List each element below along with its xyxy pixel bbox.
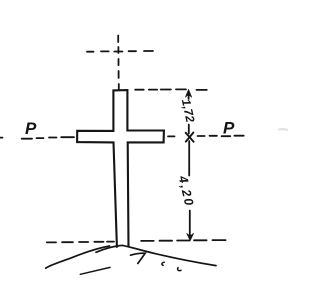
cross-top level dashed line bbox=[135, 88, 207, 91]
svg-text:4,20: 4,20 bbox=[175, 174, 196, 209]
small comma mark on slope bbox=[178, 268, 181, 271]
mound outline left stroke bbox=[46, 246, 110, 268]
svg-text:P: P bbox=[25, 119, 37, 138]
arm-level dashed line right bbox=[168, 135, 244, 138]
hatch stroke on mound face bbox=[80, 267, 110, 274]
dimension line 4,20 vertical segments bbox=[188, 141, 191, 237]
dimension arrowhead up (top of 1,72) bbox=[185, 89, 192, 97]
arm-level dashed line left (line of action of P) bbox=[0, 137, 74, 139]
rock ledge mark (7-shape) right of post bbox=[131, 253, 146, 263]
mound summit/right slope stroke bbox=[96, 245, 216, 265]
small c-curve mark on slope bbox=[162, 262, 164, 265]
top plumb vertical dashed line bbox=[117, 36, 120, 90]
top plumb crosshair horizontal dashed line bbox=[87, 50, 153, 53]
dimension arrowhead down (bottom of 4,20) bbox=[187, 233, 194, 241]
cross outline (post + crossarm) bbox=[77, 90, 164, 247]
dimension line 1,72 vertical segments bbox=[188, 93, 190, 134]
ground level dashed line bbox=[47, 240, 226, 242]
svg-text:1,72: 1,72 bbox=[179, 98, 198, 124]
svg-text:P: P bbox=[223, 119, 235, 138]
X mark where dimensions meet arm line bbox=[186, 133, 194, 142]
faint pencil smudge right margin bbox=[279, 128, 287, 131]
